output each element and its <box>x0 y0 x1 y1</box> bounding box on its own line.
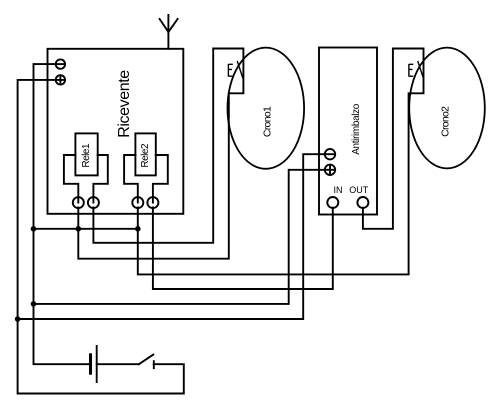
timer T2 Crono2 ellipse <box>409 48 485 169</box>
junction dot B <box>76 226 82 232</box>
wire Ricevente minus to battery <box>34 64 91 364</box>
junction dot E <box>15 316 21 322</box>
slash mark E2 <box>418 61 424 79</box>
svg-text:Rele2: Rele2 <box>140 143 151 168</box>
terminal plus (Antirimbalzo) <box>325 165 335 175</box>
antenna ANT1 <box>160 15 178 49</box>
wire minus bus row <box>34 228 138 230</box>
terminal circle Rele1 left <box>73 197 84 208</box>
wire loop Rele2 to E2 and OUT <box>138 49 424 275</box>
svg-text:Crono1: Crono1 <box>261 106 273 137</box>
terminal circle OUT <box>357 197 368 208</box>
terminal circle Rele1 right <box>88 197 99 208</box>
battery B1 short plate <box>89 355 92 373</box>
wire Ricevente plus to bottom loop <box>18 80 184 394</box>
label E input Crono2 <box>409 64 413 77</box>
switch S1 contact tick <box>153 361 155 368</box>
receiver box U1 Ricevente <box>48 49 184 214</box>
terminal plus (Ricevente) <box>56 75 65 84</box>
svg-text:Ricevente: Ricevente <box>116 70 133 138</box>
svg-text:Rele1: Rele1 <box>81 143 92 168</box>
terminal circle IN <box>327 197 338 208</box>
wire Rele2 right to IN <box>153 208 333 290</box>
svg-text:Crono2: Crono2 <box>440 106 452 137</box>
junction dot A <box>31 226 37 232</box>
terminal circle Rele2 right <box>147 197 158 208</box>
relay K2 Rele2 bracket <box>124 155 168 203</box>
relay K2 Rele2 box <box>135 133 155 175</box>
relay K1 Rele1 box <box>75 133 97 175</box>
switch S1 lever <box>139 355 153 365</box>
wire Antirimbalzo plus to left bus <box>34 170 325 304</box>
wire Antirimbalzo minus to left bus <box>18 154 325 319</box>
junction dot D <box>31 301 37 307</box>
terminal minus (Antirimbalzo) <box>325 149 335 159</box>
terminal circle Rele2 left <box>132 197 143 208</box>
slash mark E1 <box>237 61 243 79</box>
timer T1 Crono1 ellipse <box>227 48 304 169</box>
junction dot C <box>135 226 141 232</box>
wire battery to switch <box>97 363 139 365</box>
terminal minus (Ricevente) <box>56 59 65 68</box>
wire loop Rele1 to E1 <box>78 49 243 259</box>
svg-text:IN: IN <box>334 185 343 195</box>
relay K1 Rele1 bracket <box>64 155 108 203</box>
debounce box U2 Antirimbalzo <box>319 48 377 215</box>
svg-text:Antirimbalzo: Antirimbalzo <box>351 103 362 155</box>
battery B1 long plate <box>96 346 98 382</box>
svg-text:OUT: OUT <box>349 185 369 195</box>
label E input Crono1 <box>228 64 232 77</box>
